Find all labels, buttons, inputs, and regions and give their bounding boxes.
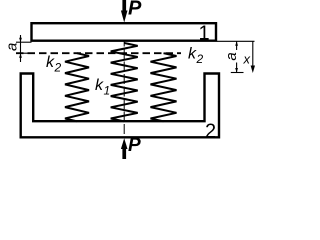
svg-text:1: 1: [104, 84, 111, 98]
svg-text:a: a: [223, 52, 240, 60]
svg-text:2: 2: [196, 52, 204, 66]
svg-text:P: P: [128, 135, 141, 156]
svg-text:2: 2: [205, 120, 216, 142]
svg-text:x: x: [243, 51, 251, 66]
svg-text:2: 2: [54, 61, 62, 75]
svg-text:P: P: [128, 0, 142, 20]
svg-text:1: 1: [199, 23, 210, 45]
svg-text:a: a: [4, 43, 21, 51]
